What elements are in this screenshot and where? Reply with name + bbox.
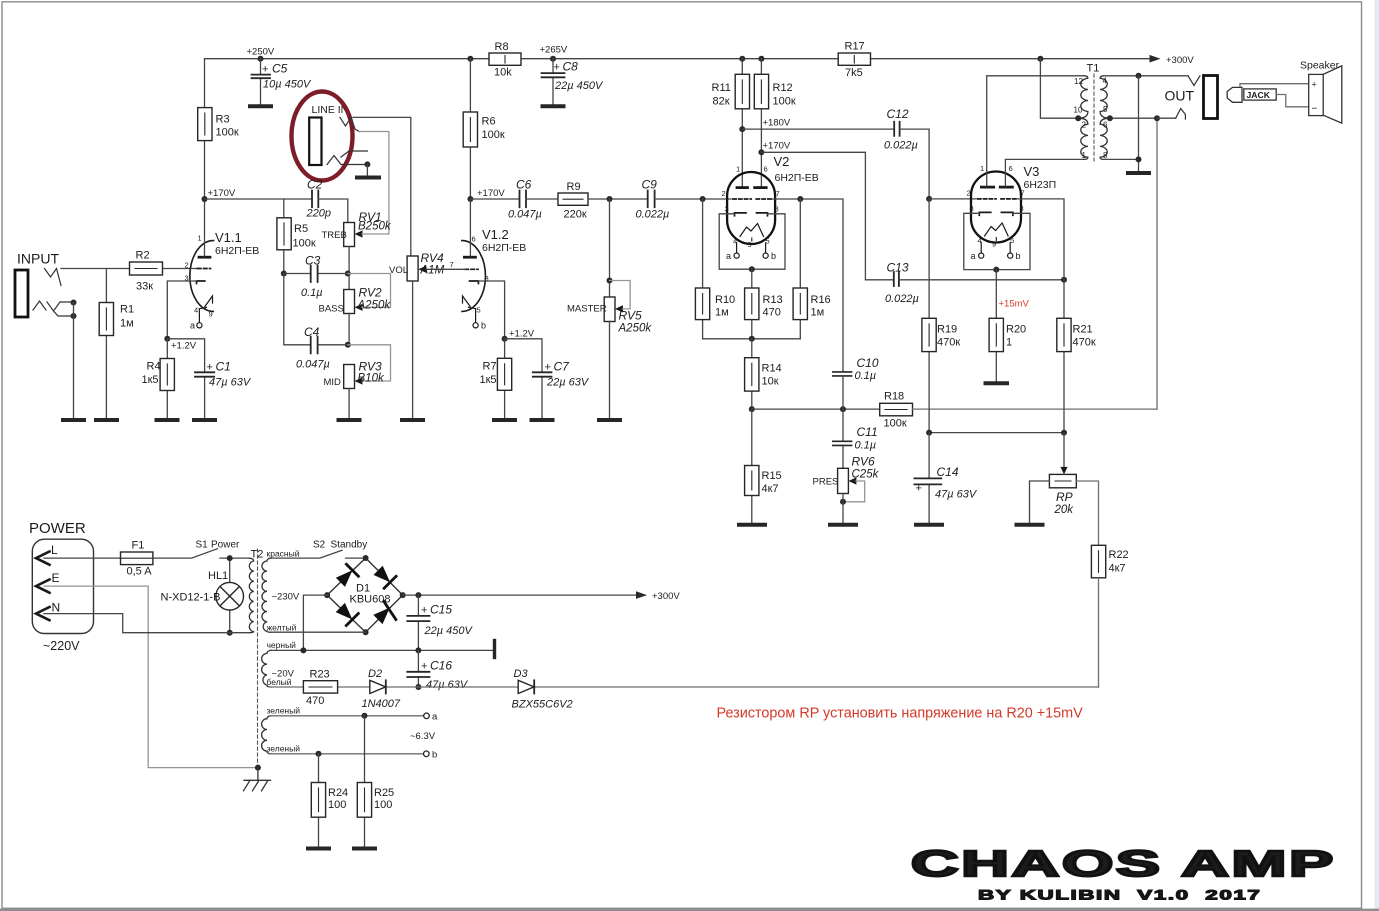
svg-text:RV5: RV5	[619, 309, 642, 323]
node R12 top	[758, 56, 764, 62]
resistor R12	[754, 59, 796, 186]
capacitor C9	[636, 178, 670, 221]
node T1 pin8	[1136, 156, 1142, 162]
line-in tip contact	[340, 117, 359, 131]
svg-text:R18: R18	[884, 391, 904, 403]
svg-text:20k: 20k	[1054, 504, 1075, 516]
resistor R18	[880, 391, 913, 430]
node jack sleeve b	[71, 313, 77, 319]
resistor R8	[489, 41, 521, 79]
JACK plug body	[1244, 89, 1276, 100]
wire +170V to C6	[470, 198, 519, 200]
svg-text:2: 2	[967, 189, 971, 198]
node bridge left	[324, 592, 330, 598]
svg-text:1: 1	[1006, 337, 1012, 349]
wire line-in break contact to RV1 wiper	[359, 132, 389, 235]
svg-text:6: 6	[1103, 121, 1108, 130]
wire T1 center tap B+	[1040, 59, 1157, 118]
ground R1	[96, 418, 117, 422]
chassis bar	[493, 641, 496, 658]
svg-text:R8: R8	[495, 41, 509, 53]
resistor R1	[99, 269, 134, 419]
ground C7	[532, 418, 553, 422]
tube V1.1	[185, 199, 260, 331]
wire OUT ring	[1157, 117, 1176, 119]
node T1 secondary CT	[1107, 115, 1113, 121]
svg-text:R14: R14	[762, 363, 782, 375]
wire V2 grid right	[772, 199, 843, 372]
wire E to chassis	[44, 586, 258, 768]
input jack sleeve contacts	[33, 301, 74, 316]
capacitor C7	[505, 339, 590, 419]
svg-text:V2: V2	[774, 154, 790, 169]
svg-text:4к7: 4к7	[762, 483, 779, 495]
svg-text:+170V: +170V	[763, 141, 791, 152]
svg-text:HL1: HL1	[208, 570, 228, 582]
resistor R13	[745, 269, 783, 339]
svg-text:8: 8	[775, 205, 779, 214]
svg-text:C7: C7	[554, 360, 571, 374]
node C15 top	[415, 592, 421, 598]
wire V3 grid2 riser	[1017, 199, 1064, 280]
svg-text:1: 1	[198, 234, 202, 243]
svg-text:R24: R24	[328, 787, 348, 799]
node +170V V2	[758, 149, 764, 155]
tube V2	[722, 154, 819, 261]
svg-text:+: +	[421, 661, 427, 673]
wire jack sleeve to ground	[73, 303, 75, 419]
wire T1 pin8 to ground	[1104, 76, 1139, 171]
svg-text:R11: R11	[712, 82, 731, 94]
wire presence bus	[752, 408, 880, 410]
svg-text:R7: R7	[483, 361, 497, 373]
svg-text:6Н2П-ЕВ: 6Н2П-ЕВ	[775, 172, 819, 184]
top supply rail +250V/+265V	[205, 58, 1154, 60]
node C16 bottom	[415, 684, 421, 690]
svg-text:22µ 450V: 22µ 450V	[554, 80, 604, 92]
pin E arrow	[36, 580, 50, 593]
node R5/C3 left	[281, 271, 287, 277]
svg-text:R15: R15	[762, 470, 782, 482]
ground RV5	[599, 418, 620, 422]
svg-text:~220V: ~220V	[43, 639, 80, 653]
terminal a	[424, 713, 430, 719]
wire RP right to R22	[1076, 481, 1098, 545]
svg-text:Power: Power	[211, 540, 240, 551]
svg-text:RV6: RV6	[852, 455, 875, 469]
svg-text:желтый: желтый	[267, 623, 297, 633]
node jack sleeve a	[71, 300, 77, 306]
svg-text:a: a	[432, 712, 438, 723]
node R24 top	[316, 751, 322, 757]
potentiometer RV1 TREB	[322, 210, 392, 247]
resistor R3	[198, 59, 239, 199]
wire N to T2	[44, 614, 250, 633]
resistor R24	[311, 754, 348, 847]
node +170V V1.2 plate	[467, 196, 473, 202]
wire V1.1 cathode to R4	[167, 281, 196, 339]
wire V3 grid left	[929, 198, 976, 200]
potentiometer RV3 MID	[324, 345, 391, 389]
svg-text:BZX55C6V2: BZX55C6V2	[512, 699, 573, 711]
ground RV6	[830, 523, 856, 527]
svg-text:100к: 100к	[293, 238, 316, 250]
wire cathode bus	[703, 338, 801, 340]
node HL1 top	[227, 555, 233, 561]
svg-text:1к5: 1к5	[142, 374, 159, 386]
svg-text:6Н2П-ЕВ: 6Н2П-ЕВ	[482, 242, 526, 254]
svg-text:+180V: +180V	[763, 118, 791, 129]
svg-text:A250k: A250k	[357, 300, 392, 312]
svg-text:47µ 63V: 47µ 63V	[935, 489, 978, 501]
ground C8	[543, 104, 564, 108]
resistor R14	[745, 339, 782, 409]
svg-text:2: 2	[722, 189, 726, 198]
svg-text:1: 1	[980, 164, 984, 173]
node C13 right	[1061, 277, 1067, 283]
svg-text:100к: 100к	[884, 418, 907, 430]
svg-text:C25k: C25k	[852, 469, 880, 481]
svg-text:RV4: RV4	[421, 251, 444, 265]
svg-text:~230V: ~230V	[272, 592, 300, 603]
ground C5	[250, 104, 271, 108]
ground line-in	[357, 176, 379, 180]
diode D3	[512, 668, 573, 711]
svg-text:MASTER: MASTER	[567, 304, 607, 315]
svg-text:D3: D3	[514, 668, 529, 680]
node line-in sleeve	[364, 161, 370, 167]
node R25 top	[362, 713, 368, 719]
node R6 top	[467, 56, 473, 62]
svg-text:черный: черный	[267, 640, 297, 650]
svg-text:C16: C16	[430, 659, 452, 673]
capacitor C12	[884, 107, 918, 152]
svg-text:0.047µ: 0.047µ	[508, 209, 542, 221]
svg-text:b: b	[432, 750, 437, 761]
wire C2 to RV1 top	[318, 199, 348, 223]
svg-text:R22: R22	[1109, 549, 1129, 561]
svg-text:+: +	[554, 62, 560, 74]
input jack connector	[15, 270, 28, 317]
svg-text:470к: 470к	[1073, 337, 1096, 349]
svg-text:1м: 1м	[811, 307, 825, 319]
node feedback corner	[1154, 115, 1160, 121]
svg-text:1к5: 1к5	[480, 374, 497, 386]
wire input top	[61, 268, 130, 270]
svg-text:100к: 100к	[773, 96, 796, 108]
svg-text:C9: C9	[642, 178, 658, 192]
wire green a	[270, 715, 424, 717]
wire V3 plate 2 to T1	[1005, 159, 1084, 186]
svg-text:0,5 A: 0,5 A	[127, 566, 153, 578]
svg-text:R20: R20	[1006, 324, 1026, 336]
potentiometer RP	[1049, 433, 1076, 516]
capacitor C2	[306, 178, 331, 220]
svg-text:R17: R17	[845, 41, 865, 53]
svg-text:BASS: BASS	[319, 304, 344, 315]
svg-text:C13: C13	[887, 261, 909, 275]
svg-text:10к: 10к	[762, 376, 779, 388]
node RV6 bottom	[840, 499, 846, 505]
T1 secondary winding 4-5	[1100, 76, 1110, 118]
wire RV2 to C4 node	[348, 314, 350, 345]
node C14 top	[926, 430, 932, 436]
node V3 cathode	[993, 267, 999, 273]
maroon highlight ellipse	[292, 92, 353, 181]
svg-text:7: 7	[1021, 189, 1025, 198]
svg-text:+: +	[916, 483, 922, 495]
capacitor C3	[284, 254, 348, 300]
node RV5 top	[607, 196, 613, 202]
resistor R15	[745, 409, 782, 523]
wire C6 to R9	[526, 198, 558, 200]
svg-text:+1.2V: +1.2V	[171, 341, 197, 352]
bridge rectifier D1	[327, 558, 403, 632]
svg-text:6Н2П-ЕВ: 6Н2П-ЕВ	[215, 245, 259, 257]
potentiometer RV5 MASTER	[567, 199, 652, 335]
node +170V V1.1 plate	[202, 196, 208, 202]
svg-text:82к: 82к	[713, 96, 730, 108]
svg-text:4: 4	[194, 306, 198, 315]
svg-text:+: +	[207, 362, 213, 374]
svg-text:+: +	[1312, 80, 1317, 90]
wire C13 to V3 grid2	[899, 279, 1064, 281]
wire V3 cathode loop	[964, 213, 1030, 269]
svg-text:100: 100	[328, 799, 346, 811]
wire feedback riser	[1156, 118, 1158, 409]
node RP top	[1061, 430, 1067, 436]
node V2 cathode	[749, 266, 755, 272]
wire R2 to V1.1 grid	[163, 268, 198, 270]
wire C12 to V3 grid	[900, 129, 930, 199]
node V3 grid left	[926, 196, 932, 202]
svg-text:D2: D2	[368, 668, 382, 680]
node bridge top	[363, 555, 369, 561]
ground RV4	[402, 418, 423, 422]
node R14 top	[749, 336, 755, 342]
svg-text:+250V: +250V	[247, 47, 275, 58]
svg-text:CHAOS AMP: CHAOS AMP	[911, 844, 1336, 884]
svg-text:C5: C5	[272, 62, 288, 76]
svg-text:R10: R10	[715, 294, 735, 306]
svg-text:12: 12	[1074, 77, 1083, 86]
svg-text:VOL: VOL	[389, 265, 408, 276]
svg-text:22µ 63V: 22µ 63V	[546, 377, 590, 389]
node C10 bottom	[840, 406, 846, 412]
svg-text:C10: C10	[857, 356, 879, 370]
wire +170V to C13	[761, 152, 893, 279]
resistor R21	[1057, 280, 1096, 433]
lamp HL1	[161, 558, 244, 633]
ground R20	[986, 381, 1008, 385]
svg-text:47µ 63V: 47µ 63V	[426, 679, 469, 691]
wire +170V to C2	[205, 198, 312, 200]
resistor R6	[463, 59, 505, 199]
node C4 right	[345, 342, 351, 348]
svg-text:E: E	[52, 571, 60, 585]
svg-text:N: N	[52, 601, 61, 615]
ground RP	[1017, 523, 1043, 527]
svg-text:R12: R12	[773, 82, 793, 94]
wire green b	[270, 753, 424, 755]
svg-text:8: 8	[1020, 204, 1024, 213]
svg-text:C15: C15	[430, 603, 452, 617]
svg-text:C8: C8	[563, 60, 579, 74]
svg-text:V1.2: V1.2	[482, 227, 509, 242]
ground R25	[354, 847, 375, 851]
svg-text:100: 100	[374, 799, 392, 811]
node V2 grid2	[797, 196, 803, 202]
node OUT tip	[1136, 73, 1142, 79]
svg-text:B250k: B250k	[358, 221, 392, 233]
svg-text:2: 2	[1082, 121, 1087, 130]
node T1 primary CT	[1075, 115, 1081, 121]
terminal b	[424, 751, 430, 757]
svg-text:1м: 1м	[715, 307, 729, 319]
svg-text:+15mV: +15mV	[999, 299, 1030, 310]
svg-text:белый: белый	[267, 677, 292, 687]
svg-text:R6: R6	[482, 116, 496, 128]
svg-text:R3: R3	[216, 114, 230, 126]
JACK plug tip	[1227, 87, 1242, 102]
wire RV3 to ground	[348, 389, 350, 419]
switch S1 Power	[153, 540, 250, 559]
svg-text:a: a	[190, 321, 195, 331]
resistor R2	[130, 250, 163, 293]
wire R22 to D3 line	[1098, 578, 1100, 687]
fuse F1	[121, 540, 153, 578]
svg-text:8: 8	[1103, 151, 1108, 160]
svg-text:RP: RP	[1056, 490, 1073, 504]
svg-text:470: 470	[306, 695, 324, 707]
T1 primary winding 2-1	[1078, 118, 1088, 159]
svg-text:100к: 100к	[482, 129, 505, 141]
+300V arrow top right	[1150, 55, 1161, 63]
svg-text:~6.3V: ~6.3V	[410, 731, 436, 742]
svg-text:0.022µ: 0.022µ	[885, 293, 919, 305]
node +1.2V V1.2	[502, 336, 508, 342]
svg-text:L: L	[51, 543, 58, 557]
svg-text:MID: MID	[324, 377, 342, 388]
svg-text:6: 6	[1009, 164, 1013, 173]
wire sleeve to ground	[366, 164, 368, 175]
potentiometer RV4 VOL	[389, 251, 454, 281]
node R14 bottom	[749, 406, 755, 412]
resistor R7	[480, 339, 512, 419]
svg-text:6: 6	[764, 165, 768, 174]
line-in jack connector	[309, 118, 321, 166]
svg-text:0.1µ: 0.1µ	[855, 370, 877, 382]
resistor R19	[922, 199, 960, 433]
svg-text:T1: T1	[1087, 63, 1100, 75]
capacitor C13	[885, 261, 919, 306]
wire V2 cathode loop	[719, 214, 785, 269]
svg-text:1: 1	[1082, 151, 1087, 160]
svg-text:a: a	[971, 251, 976, 261]
svg-text:a: a	[726, 251, 731, 261]
svg-text:220p: 220p	[306, 208, 331, 220]
ground R24	[308, 847, 329, 851]
wire R18 to feedback	[913, 408, 1158, 410]
svg-text:5: 5	[1103, 105, 1108, 114]
svg-text:0.022µ: 0.022µ	[636, 209, 670, 221]
svg-text:0.022µ: 0.022µ	[884, 140, 918, 152]
capacitor C15	[407, 595, 473, 650]
ground R7	[494, 418, 515, 422]
svg-text:A250k: A250k	[618, 323, 653, 335]
pin L arrow	[36, 552, 50, 565]
OUT jack tip contact	[1188, 76, 1200, 86]
svg-text:6: 6	[472, 235, 476, 244]
svg-text:C1: C1	[216, 360, 231, 374]
svg-text:A1M: A1M	[420, 265, 445, 277]
svg-text:+300V: +300V	[1166, 55, 1194, 66]
wire bridge minus to black	[303, 595, 327, 650]
svg-text:Standby: Standby	[331, 540, 368, 551]
chassis ground symbol	[244, 768, 271, 791]
wire RV5 to ground	[609, 322, 611, 419]
node C3 right	[345, 271, 351, 277]
svg-text:Резистором RP установить напря: Резистором RP установить напряжение на R…	[717, 706, 1084, 722]
speaker LS1	[1309, 66, 1342, 123]
svg-text:R4: R4	[147, 361, 161, 373]
resistor R16	[793, 199, 831, 339]
svg-text:1N4007: 1N4007	[362, 698, 401, 710]
svg-text:R9: R9	[567, 181, 581, 193]
wire R9 to C9	[588, 198, 648, 200]
wire RV6 to ground	[842, 494, 844, 524]
svg-text:0.1µ: 0.1µ	[301, 287, 323, 299]
svg-text:1м: 1м	[120, 318, 134, 330]
potentiometer RV2 BASS	[319, 274, 392, 315]
ground RV3	[339, 418, 360, 422]
input jack tip contact	[45, 269, 62, 286]
svg-text:N-XD12-1-B: N-XD12-1-B	[161, 592, 221, 604]
svg-text:+170V: +170V	[477, 188, 505, 199]
svg-text:5: 5	[477, 306, 481, 315]
svg-text:9: 9	[992, 240, 996, 249]
svg-text:4к7: 4к7	[1109, 563, 1126, 575]
svg-text:JACK: JACK	[1247, 90, 1271, 100]
svg-text:470: 470	[763, 307, 781, 319]
wire bridge plus to +300V	[403, 594, 636, 596]
svg-text:6Н23П: 6Н23П	[1024, 179, 1057, 191]
ground input jack	[63, 418, 84, 422]
svg-text:V3: V3	[1024, 164, 1040, 179]
svg-text:C14: C14	[937, 465, 959, 479]
svg-text:R2: R2	[136, 250, 150, 262]
OUT jack ring contact	[1176, 109, 1186, 120]
svg-text:S2: S2	[313, 540, 326, 551]
resistor R5	[277, 199, 316, 274]
T2 primary winding	[249, 558, 253, 633]
svg-text:R25: R25	[374, 787, 394, 799]
svg-text:4: 4	[1103, 77, 1108, 86]
wire V3 plate 1 to T1	[987, 76, 1084, 186]
svg-text:b: b	[481, 321, 486, 331]
diode D2	[362, 668, 401, 710]
svg-text:33к: 33к	[136, 281, 153, 293]
wire L to F1	[44, 557, 121, 559]
T2 HV secondary	[262, 558, 271, 632]
svg-text:R21: R21	[1073, 324, 1093, 336]
T1 secondary winding 6-8	[1100, 118, 1110, 159]
wire RP left to ground	[1030, 481, 1050, 523]
svg-text:+: +	[421, 605, 427, 617]
capacitor C1	[167, 339, 252, 419]
svg-text:+: +	[262, 64, 268, 76]
svg-text:b: b	[771, 251, 776, 261]
